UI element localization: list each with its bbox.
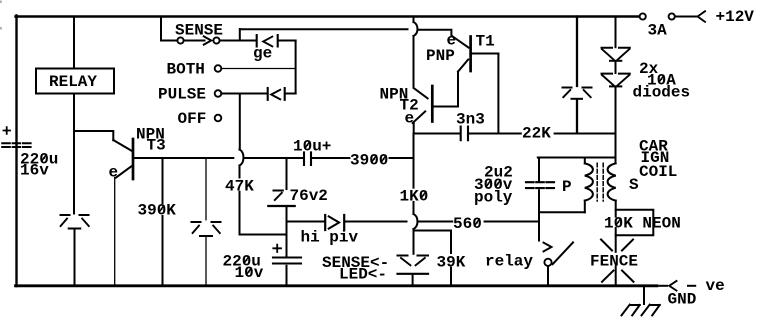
hop (47K line over y158 wire) xyxy=(240,150,244,166)
transformer CAR IGN COIL xyxy=(538,158,616,213)
svg-text:76v2: 76v2 xyxy=(290,187,328,205)
svg-text:OFF: OFF xyxy=(178,110,207,128)
transistor T2 NPN collector line + hop xyxy=(413,17,458,134)
opto LED (sense/led) xyxy=(398,231,429,286)
svg-text:RELAY: RELAY xyxy=(49,73,97,91)
svg-text:22K: 22K xyxy=(522,125,551,143)
capacitor ge xyxy=(257,35,296,94)
zener 76v2 xyxy=(268,158,294,256)
capacitor 3n3 xyxy=(461,127,499,141)
neon box 10K NEON xyxy=(616,201,654,285)
svg-text:T3: T3 xyxy=(147,137,166,155)
switch BOTH row xyxy=(215,65,295,72)
svg-text:1K0: 1K0 xyxy=(400,188,429,206)
svg-text:BOTH: BOTH xyxy=(167,61,205,79)
svg-text:390K: 390K xyxy=(138,202,177,220)
capacitor 220u 10v xyxy=(273,245,301,285)
wire relay vertical lower xyxy=(73,94,75,214)
svg-text:PNP: PNP xyxy=(426,47,455,65)
wire 560 to poly cap node xyxy=(485,221,538,223)
svg-text:10K NEON: 10K NEON xyxy=(604,215,681,233)
svg-text:e: e xyxy=(109,164,119,182)
zener (on 22K node) xyxy=(563,17,592,133)
fuse 3A + connector +12V xyxy=(640,11,705,22)
transistor T1 PNP xyxy=(418,30,499,134)
svg-text:10u+: 10u+ xyxy=(293,138,331,156)
wire 3900 to T2 emitter node xyxy=(390,157,414,159)
svg-text:PULSE: PULSE xyxy=(158,86,206,104)
capacitor 220u 16v (left edge) xyxy=(2,127,30,147)
svg-text:e: e xyxy=(447,32,457,50)
hop (560 wire over 1K0 line) xyxy=(414,214,418,229)
svg-text:SENSE: SENSE xyxy=(175,22,223,40)
LED D2 (mid) xyxy=(192,159,221,286)
svg-text:poly: poly xyxy=(474,189,513,207)
wire hi-piv row xyxy=(288,221,324,223)
svg-text:ve: ve xyxy=(706,277,725,295)
svg-text:hi piv: hi piv xyxy=(301,229,359,247)
svg-text:10v: 10v xyxy=(235,264,264,282)
resistor 390K line xyxy=(162,158,164,285)
svg-text:3n3: 3n3 xyxy=(456,111,485,129)
svg-text:3A: 3A xyxy=(648,22,668,40)
svg-text:16v: 16v xyxy=(20,162,49,180)
svg-text:560: 560 xyxy=(453,215,482,233)
relay contact xyxy=(544,242,574,285)
connector -ve GND + chassis ground xyxy=(622,281,696,315)
transistor T3 NPN xyxy=(113,139,133,285)
resistor 39K line lower xyxy=(450,268,452,285)
svg-text:47K: 47K xyxy=(225,178,254,196)
resistor 47K line (pulse cap down) xyxy=(239,95,241,235)
FENCE spark rays xyxy=(601,240,634,282)
wire T2 emitter row to 3n3 xyxy=(414,133,460,135)
wire T3 base row (y158) xyxy=(134,157,233,159)
wire relay-T3 branch xyxy=(74,131,113,140)
diode hi piv xyxy=(325,215,406,230)
relay coil box xyxy=(36,69,114,94)
svg-text:LED<-: LED<- xyxy=(339,266,387,284)
svg-text:e: e xyxy=(405,110,415,128)
wire 22K row xyxy=(498,133,614,135)
svg-text:+12V: +12V xyxy=(716,8,755,26)
svg-text:COIL: COIL xyxy=(639,163,677,181)
resistor 1K0 line xyxy=(413,134,415,215)
svg-text:ge: ge xyxy=(253,45,272,63)
svg-text:39K: 39K xyxy=(437,254,466,272)
switch SENSE row xyxy=(161,17,408,45)
svg-text:GND: GND xyxy=(668,291,697,309)
wire 39K branch xyxy=(414,229,452,253)
svg-text:P: P xyxy=(562,178,572,196)
switch OFF terminal xyxy=(215,115,222,122)
edge specks xyxy=(0,1,2,30)
wire top supply rail xyxy=(16,15,640,17)
slashed zeros xyxy=(41,75,664,275)
wire left rail xyxy=(15,16,17,287)
svg-text:FENCE: FENCE xyxy=(590,253,638,271)
svg-text:S: S xyxy=(629,176,639,194)
capacitor 10u+ xyxy=(304,152,349,165)
switch PULSE row + capacitor xyxy=(215,88,296,100)
svg-text:T1: T1 xyxy=(476,33,495,51)
wire relay vertical upper xyxy=(73,17,75,69)
ground rail (bottom) xyxy=(16,284,658,287)
svg-text:relay: relay xyxy=(485,253,533,271)
diodes 2x 10A xyxy=(602,17,630,163)
capacitor 2u2 300v poly xyxy=(526,158,554,241)
wire 47K to zener node xyxy=(240,234,287,236)
LED D1 (on relay line) xyxy=(61,215,89,285)
svg-text:diodes: diodes xyxy=(633,84,691,102)
